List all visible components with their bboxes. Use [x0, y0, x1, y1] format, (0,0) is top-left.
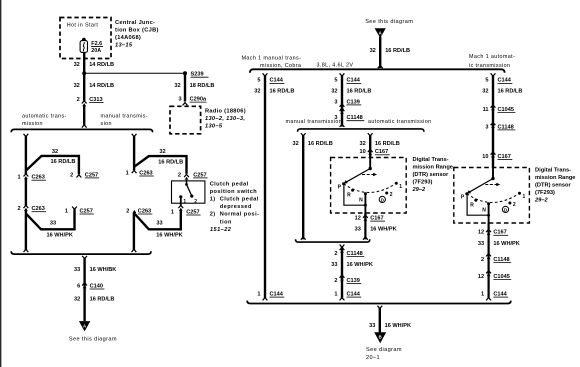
DTR DTR1 contact 1	[395, 182, 398, 185]
svg-text:(7F293): (7F293)	[413, 179, 433, 185]
svg-text:14 RD/LB: 14 RD/LB	[89, 62, 114, 68]
label 32 (auto branch)	[52, 149, 58, 155]
top rail (right section)	[250, 69, 505, 73]
svg-text:16 RD/LB: 16 RD/LB	[308, 141, 333, 147]
connector 1 C144 (combined bottom)	[334, 291, 361, 297]
branch wire 33 16 WH/PK (auto)	[26, 209, 75, 229]
connector 3 C1148 (drop B)	[334, 108, 364, 121]
clutch pedal position switch text	[210, 181, 260, 233]
connector 3 C1148 (drop C)	[485, 122, 515, 130]
svg-text:1: 1	[126, 170, 129, 176]
DTR DTR1 direction arrow	[362, 173, 377, 177]
wire: 2 C263 to bottom organizer (auto)	[24, 210, 29, 252]
label 32 / 16 RD/LB (top right feed)	[370, 48, 411, 54]
svg-text:16 WH/BK: 16 WH/BK	[90, 267, 117, 273]
switch internals	[179, 180, 197, 205]
wire: organizer to 1 C263 (automatic path)	[24, 134, 29, 174]
label: Mach 1 automatic transmission	[469, 54, 515, 69]
svg-text:C257: C257	[80, 208, 93, 214]
label 33 / 16 WH/PK (DTR1 output)	[355, 227, 397, 233]
svg-text:20–1: 20–1	[366, 355, 380, 361]
svg-text:1: 1	[481, 291, 484, 297]
Central Junction Box (CJB) dashed box	[60, 18, 111, 59]
DTR DTR2 contact 2	[508, 202, 511, 205]
svg-text:16 RD/LB: 16 RD/LB	[90, 297, 115, 303]
label: See this diagram (bottom left)	[69, 337, 117, 343]
connector 2 C1148 (combined)	[334, 247, 364, 256]
label 32 / 14 RD/LB (lower)	[74, 83, 115, 89]
svg-text:10: 10	[482, 154, 488, 160]
connector 2 C257 (manual, above switch)	[178, 172, 208, 180]
DTR DTR1 contact arc (dashed)	[344, 183, 397, 192]
svg-text:32: 32	[292, 141, 298, 147]
connector 1 C144 (drop A bottom)	[257, 291, 284, 300]
svg-text:Central Junc-: Central Junc-	[115, 20, 155, 26]
svg-text:130–5: 130–5	[205, 124, 223, 130]
svg-text:manual transmission: manual transmission	[286, 119, 343, 125]
svg-text:10: 10	[359, 149, 365, 155]
label 16 RD/LB (auto branch)	[51, 159, 76, 165]
svg-text:C1148: C1148	[493, 257, 509, 263]
wire: drop 3.8L/4.6L 2V to sub-organizer	[340, 73, 345, 127]
svg-text:1: 1	[334, 291, 337, 297]
svg-text:1: 1	[523, 194, 526, 200]
connector 1 C263 stub (manual)	[126, 170, 154, 176]
svg-text:12: 12	[355, 216, 361, 222]
wire: DTR1 output to merge organizer	[363, 213, 368, 240]
svg-text:2: 2	[390, 192, 393, 198]
svg-text:14 RD/LB: 14 RD/LB	[89, 83, 114, 89]
clutch pedal position switch box	[172, 181, 205, 203]
wire: junction to S239 (thin)	[84, 72, 185, 74]
label 16 WH/PK (manual lower branch)	[156, 233, 182, 239]
svg-text:32: 32	[254, 89, 260, 95]
connector 5 C144 (drop C)	[485, 78, 512, 84]
svg-text:mission Range: mission Range	[413, 164, 453, 170]
svg-text:C263: C263	[32, 175, 45, 181]
connector 2 C139 (combined)	[334, 275, 361, 284]
wire: bottom organizer to arrow A	[82, 256, 87, 321]
svg-text:12: 12	[478, 274, 484, 280]
DTR DTR2 input stub and pivot	[491, 168, 494, 181]
svg-text:33: 33	[478, 241, 484, 247]
connector 11 C1045 (drop C)	[483, 105, 516, 113]
branch wire 32 16 RD/LB (automatic)	[26, 156, 79, 174]
svg-text:6: 6	[77, 283, 80, 289]
label: Hot in Start	[67, 23, 99, 29]
label: manual transmission (left section)	[101, 114, 148, 127]
svg-text:16 RD/LB: 16 RD/LB	[51, 159, 76, 165]
svg-text:D: D	[381, 197, 384, 202]
arrow B (to diagram 20-1)	[374, 332, 386, 343]
connector 2 C263 stub (manual)	[126, 208, 152, 214]
connector 5 C144 (drop A)	[257, 78, 284, 84]
connector 5 C144 (drop B)	[334, 78, 361, 84]
svg-text:C167: C167	[498, 154, 511, 160]
wire: 2 C263 to bottom organizer (manual)	[132, 213, 137, 252]
label 32 / 16 RD/LB (left bottom)	[74, 297, 115, 303]
wire: arrow A to top rail	[378, 37, 383, 68]
svg-text:C1045: C1045	[493, 274, 509, 280]
svg-text:1: 1	[257, 291, 260, 297]
DTR DTR2 contact arc (dashed)	[467, 193, 520, 202]
label: automatic transmission (sub)	[368, 119, 432, 125]
wire: sub-drop automatic to DTR sensor	[368, 133, 373, 157]
label 32 / 16 RD/LB (sub-drop manual)	[292, 141, 332, 147]
svg-text:33: 33	[50, 221, 56, 227]
svg-text:16 WH/PK: 16 WH/PK	[47, 233, 73, 239]
svg-text:Hot in Start: Hot in Start	[67, 23, 99, 29]
svg-text:C263: C263	[32, 206, 45, 212]
svg-text:mission: mission	[22, 121, 43, 127]
label: automatic transmission	[22, 114, 67, 127]
svg-text:C290a: C290a	[190, 97, 207, 103]
wire: S239 down to C290a	[184, 73, 186, 101]
svg-text:1: 1	[183, 199, 186, 205]
svg-text:N: N	[359, 198, 363, 204]
DTR DTR2 position labels	[461, 194, 526, 214]
svg-text:position switch: position switch	[210, 189, 258, 195]
label 3 / C290a	[178, 97, 206, 103]
DTR2 name text	[534, 167, 575, 203]
svg-text:130–2, 130–3,: 130–2, 130–3,	[205, 116, 245, 122]
DTR DTR1 contact P	[342, 182, 345, 185]
svg-text:See this diagram: See this diagram	[69, 337, 117, 343]
svg-text:Radio (18806): Radio (18806)	[205, 109, 246, 115]
svg-text:D: D	[504, 207, 507, 212]
label 33 / 16 WH/PK (combined)	[331, 262, 373, 268]
svg-text:C139: C139	[347, 99, 360, 105]
svg-text:A: A	[83, 323, 86, 328]
svg-text:C1148: C1148	[347, 115, 363, 121]
svg-text:29–2: 29–2	[412, 187, 426, 193]
svg-text:151–22: 151–22	[210, 227, 232, 233]
connector C290a (half)	[183, 103, 188, 106]
connector C140	[77, 283, 104, 290]
svg-text:mission, Cobra: mission, Cobra	[260, 63, 301, 69]
connector C313	[77, 97, 104, 106]
label 33 / 16 WH/PK (DTR2 output)	[478, 241, 520, 247]
connector 1 C257 (manual)	[171, 205, 201, 215]
svg-text:Normal posi-: Normal posi-	[220, 212, 260, 218]
svg-text:C257: C257	[85, 172, 98, 178]
DTR DTR2 contact R	[474, 199, 477, 202]
svg-text:1: 1	[65, 208, 68, 214]
DTR DTR2 wiper arm	[467, 179, 493, 194]
svg-text:20A: 20A	[91, 48, 101, 54]
svg-text:Digital Trans-: Digital Trans-	[413, 157, 449, 163]
svg-text:32: 32	[359, 141, 365, 147]
svg-text:32: 32	[482, 89, 488, 95]
svg-text:A: A	[379, 30, 382, 35]
svg-text:33: 33	[156, 221, 162, 227]
svg-text:sion: sion	[101, 121, 112, 127]
svg-text:11: 11	[483, 107, 489, 113]
svg-text:16 RD/LB: 16 RD/LB	[347, 89, 372, 95]
connector 12 C1045 (drop C lower)	[478, 271, 511, 280]
svg-text:1: 1	[17, 175, 20, 181]
label 32 / 16 RD/LB (drop B)	[331, 89, 371, 95]
svg-text:2: 2	[481, 257, 484, 263]
connector 2 C1148 (drop C lower)	[481, 254, 511, 263]
connector 1 C144 (drop C bottom)	[481, 291, 508, 297]
svg-text:18 RD/LB: 18 RD/LB	[190, 83, 215, 89]
svg-text:C167: C167	[375, 149, 388, 155]
svg-text:32: 32	[370, 48, 376, 54]
svg-text:C1148: C1148	[498, 124, 514, 130]
svg-text:2: 2	[17, 206, 20, 212]
svg-text:1): 1)	[210, 197, 216, 203]
svg-text:32: 32	[74, 83, 80, 89]
svg-text:5: 5	[485, 78, 488, 84]
label 33 (auto lower branch)	[50, 221, 56, 227]
sub-organizer bar (3.8L group)	[298, 129, 425, 132]
svg-text:C263: C263	[139, 170, 152, 176]
svg-text:32: 32	[331, 89, 337, 95]
svg-text:S239: S239	[191, 72, 204, 78]
wire: 1 C263 to 2 C263 (auto)	[25, 178, 27, 206]
svg-text:2): 2)	[210, 212, 216, 218]
svg-text:C263: C263	[138, 208, 151, 214]
DTR DTR1 wiper arm	[344, 169, 371, 184]
svg-text:2: 2	[70, 172, 73, 178]
svg-text:16 WH/PK: 16 WH/PK	[493, 241, 519, 247]
svg-text:33: 33	[331, 262, 337, 268]
connector 1 C257 stub (auto)	[65, 207, 94, 215]
label 32 / 16 RD/LB (drop A)	[254, 89, 294, 95]
svg-text:Mach 1 automat-: Mach 1 automat-	[469, 54, 515, 60]
svg-text:C313: C313	[89, 97, 102, 103]
arrow A (to other diagram, bottom left)	[79, 321, 90, 331]
svg-text:C1045: C1045	[498, 107, 514, 113]
svg-text:(14A068): (14A068)	[115, 35, 141, 41]
branch wire 32 16 RD/LB (manual)	[134, 156, 186, 174]
svg-text:2: 2	[126, 208, 129, 214]
wire: junction down to C313	[83, 73, 85, 101]
arrow A (incoming, top right)	[375, 28, 386, 38]
merge organizer bar (manual+auto)	[296, 239, 370, 242]
svg-text:16 RD/LB: 16 RD/LB	[270, 89, 295, 95]
svg-text:depressed: depressed	[220, 204, 252, 210]
connector 10 C167 (DTR2 input)	[482, 152, 512, 160]
svg-text:C144: C144	[347, 78, 361, 84]
connector 3 C139 (drop B)	[334, 99, 361, 109]
svg-text:C167: C167	[370, 216, 383, 222]
svg-text:C139: C139	[347, 278, 360, 284]
svg-text:16 RD/LB: 16 RD/LB	[385, 48, 410, 54]
svg-text:2: 2	[194, 199, 197, 205]
svg-text:3: 3	[334, 99, 337, 105]
svg-text:32: 32	[174, 83, 180, 89]
DTR1 name text	[412, 157, 453, 193]
svg-text:3: 3	[178, 97, 181, 103]
svg-text:See this diagram: See this diagram	[365, 19, 413, 25]
svg-text:33: 33	[355, 227, 361, 233]
svg-text:mission Range: mission Range	[535, 175, 575, 181]
svg-text:5: 5	[257, 78, 260, 84]
svg-text:C140: C140	[90, 283, 103, 289]
svg-text:C167: C167	[493, 230, 506, 236]
DTR DTR2 direction arrow	[485, 183, 500, 187]
svg-text:32: 32	[52, 149, 58, 155]
DTR DTR1 output wire	[364, 194, 366, 213]
svg-text:2: 2	[513, 202, 516, 208]
DTR DTR2 contact P	[465, 192, 468, 195]
svg-text:2: 2	[334, 251, 337, 257]
label 32 / 14 RD/LB (upper)	[74, 62, 115, 68]
organizer bar top (left section)	[11, 129, 152, 132]
svg-text:16 WH/PK: 16 WH/PK	[347, 262, 373, 268]
svg-text:32: 32	[159, 149, 165, 155]
label: See this diagram (top right)	[365, 19, 413, 25]
svg-text:32: 32	[74, 297, 80, 303]
svg-text:5: 5	[334, 78, 337, 84]
svg-text:N: N	[482, 208, 486, 214]
svg-text:Mach 1 manual trans-: Mach 1 manual trans-	[242, 55, 302, 61]
svg-text:2: 2	[77, 97, 80, 103]
svg-text:Clutch pedal: Clutch pedal	[220, 197, 259, 203]
DTR sensor box DTR2 (dashed)	[454, 168, 530, 224]
svg-text:C144: C144	[270, 291, 284, 297]
svg-text:33: 33	[369, 323, 375, 329]
svg-text:32: 32	[74, 62, 80, 68]
svg-text:R: R	[347, 192, 351, 198]
svg-text:(7F293): (7F293)	[535, 190, 555, 196]
connector 12 C167 (DTR2 output)	[478, 229, 508, 235]
svg-text:3: 3	[485, 124, 488, 130]
svg-text:manual transmis-: manual transmis-	[101, 114, 148, 120]
connector 10 C167 (DTR1 input)	[359, 149, 389, 155]
label: See diagram 20-1	[366, 347, 402, 361]
DTR DTR1 contact N	[364, 192, 367, 195]
svg-text:(DTR) sensor: (DTR) sensor	[413, 172, 449, 178]
svg-text:1: 1	[171, 209, 174, 215]
svg-text:See diagram: See diagram	[366, 347, 402, 353]
connector 12 C167 (DTR1 output)	[355, 215, 385, 221]
label 32 / 16 RD/LB (sub-drop auto)	[359, 141, 399, 147]
svg-text:C257: C257	[186, 209, 199, 215]
DTR DTR1 position labels	[338, 184, 403, 204]
svg-text:C257: C257	[193, 172, 206, 178]
bottom rail (right section)	[247, 301, 511, 304]
svg-text:33: 33	[74, 267, 80, 273]
svg-text:13–15: 13–15	[115, 42, 133, 48]
connector 2 C263 (auto)	[17, 205, 46, 212]
page left edge line	[0, 0, 1, 367]
DTR DTR2 contact 1	[518, 192, 521, 195]
organizer bar bottom (left section)	[11, 251, 151, 254]
svg-text:automatic trans-: automatic trans-	[22, 114, 67, 120]
connector 2 C257 stub (auto)	[70, 172, 99, 178]
label 33 (manual lower branch)	[156, 221, 162, 227]
label 33 / 16 WH/BK	[74, 267, 116, 273]
svg-text:automatic transmission: automatic transmission	[368, 119, 432, 125]
DTR DTR2 contact N	[487, 202, 490, 205]
label 16 WH/PK (auto lower branch)	[47, 233, 73, 239]
wire: fuse to junction	[83, 52, 85, 73]
wire: merge organizer to bottom rail	[340, 245, 345, 301]
svg-text:C1148: C1148	[347, 251, 363, 257]
wire: 1 C257 down and left to 2 C263 (manual)	[134, 210, 180, 229]
wire: DTR2 output to bottom rail	[486, 223, 491, 300]
label: 3.8L, 4.6L 2V	[317, 62, 354, 68]
svg-text:29–2: 29–2	[534, 197, 548, 203]
svg-text:16 RD/LB: 16 RD/LB	[498, 89, 523, 95]
fuse F2.6 20A	[80, 38, 103, 55]
label: Mach 1 manual transmission, Cobra	[242, 55, 302, 69]
svg-text:2: 2	[178, 172, 181, 178]
DTR DTR1 P-to-output link	[344, 184, 367, 207]
svg-text:tion Box (CJB): tion Box (CJB)	[115, 27, 159, 33]
svg-text:C144: C144	[493, 291, 507, 297]
junction dot at splice feed	[82, 71, 86, 75]
label: manual transmission (sub)	[286, 119, 343, 125]
DTR DTR2 position D (circled)	[502, 206, 508, 212]
svg-text:ic transmission: ic transmission	[469, 63, 510, 69]
DTR DTR1 position D (circled)	[379, 196, 385, 202]
wire: switch contact 1 to C257	[180, 197, 182, 206]
splice S239	[183, 71, 209, 77]
wire: organizer to 1 C263 stub (manual path)	[132, 134, 137, 170]
connector 1 C263 (auto)	[17, 174, 46, 181]
svg-text:16 WH/PK: 16 WH/PK	[370, 227, 396, 233]
DTR DTR1 contact 2	[385, 192, 388, 195]
wire: drop Mach1 manual/Cobra	[263, 73, 268, 298]
DTR DTR2 output wire	[488, 204, 490, 223]
svg-text:16 WH/PK: 16 WH/PK	[156, 233, 182, 239]
svg-text:2: 2	[334, 278, 337, 284]
DTR DTR2 P-to-output link	[467, 194, 490, 217]
DTR sensor box DTR1 (dashed)	[331, 158, 407, 214]
wire: bottom rail to arrow B	[377, 306, 382, 333]
svg-text:16 RD/LB: 16 RD/LB	[158, 159, 183, 165]
svg-text:(DTR) sensor: (DTR) sensor	[535, 182, 571, 188]
svg-text:C144: C144	[498, 78, 512, 84]
wire: sub-drop manual transmission	[301, 133, 306, 240]
wire: C313 to organizer bar	[82, 105, 87, 127]
svg-text:C144: C144	[347, 291, 361, 297]
label 32 / 18 RD/LB	[174, 83, 214, 89]
DTR DTR1 contact R	[351, 189, 354, 192]
label 32 / 16 RD/LB (drop C)	[482, 89, 522, 95]
label 32 (manual branch)	[159, 149, 165, 155]
Radio name text	[205, 109, 246, 130]
svg-text:C144: C144	[270, 78, 284, 84]
label 16 RD/LB (manual branch)	[158, 159, 183, 165]
DTR DTR1 input stub and pivot	[369, 158, 372, 171]
svg-text:3.8L, 4.6L 2V: 3.8L, 4.6L 2V	[317, 62, 354, 68]
svg-text:1: 1	[399, 184, 402, 190]
svg-text:R: R	[470, 202, 474, 208]
svg-text:Clutch pedal: Clutch pedal	[210, 181, 249, 187]
CJB name text	[115, 20, 159, 49]
Radio dashed box	[170, 106, 201, 134]
svg-text:Digital Trans-: Digital Trans-	[535, 167, 571, 173]
svg-text:tion: tion	[220, 219, 232, 225]
wire: drop Mach1 automatic to DTR2	[491, 73, 496, 167]
svg-text:12: 12	[478, 230, 484, 236]
svg-text:B: B	[379, 335, 382, 340]
svg-text:16 WH/PK: 16 WH/PK	[385, 323, 411, 329]
label 33 / 16 WH/PK (bottom output)	[369, 323, 411, 329]
svg-text:16 RD/LB: 16 RD/LB	[375, 141, 400, 147]
